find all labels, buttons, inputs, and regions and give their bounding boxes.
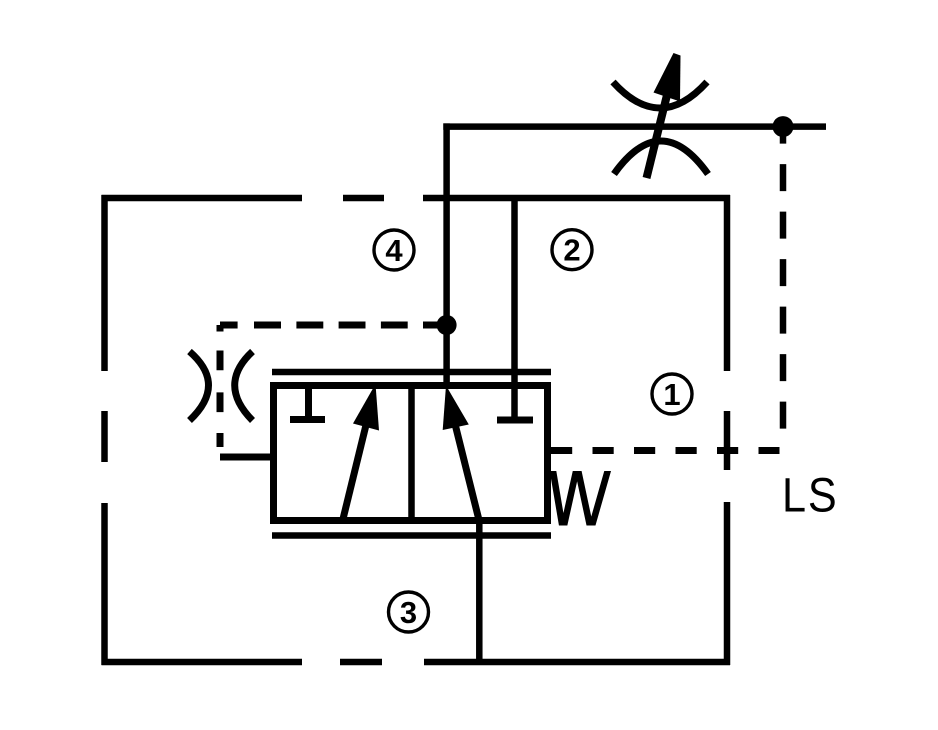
wire: port 2 line from boundary to blocked port [511, 198, 518, 417]
right position flow arrow shaft [454, 420, 480, 524]
enclosure boundary left side [101, 195, 108, 665]
port 3 label [389, 592, 429, 632]
variable orifice adjustment arrow head [654, 53, 681, 102]
port 2 label [552, 230, 592, 270]
wire: port 3 line from valve to bottom boundary [476, 519, 483, 662]
wire: supply drop from inlet to valve port 4 [443, 123, 450, 389]
svg-text:1: 1 [663, 377, 680, 412]
valve intermediate-position bar bottom [272, 532, 551, 539]
enclosure boundary top side [102, 195, 731, 202]
junction node at pilot tee [437, 315, 457, 335]
right position blocked port T bar [497, 417, 533, 424]
wire: dashed pilot line from valve pilot through orifice to junction [220, 325, 441, 447]
valve body box [274, 386, 548, 521]
variable orifice lower arc [614, 141, 708, 174]
valve position divider [408, 386, 415, 521]
valve intermediate-position bar top [272, 369, 551, 376]
left position blocked port T [290, 388, 325, 420]
svg-text:LS: LS [782, 468, 838, 522]
left position flow arrow head [353, 384, 379, 431]
wire: solid pilot stub into valve left side [220, 454, 272, 461]
wire: dashed LS horizontal pilot line [551, 447, 780, 454]
fixed pilot orifice right arc [235, 352, 253, 421]
enclosure boundary bottom side [102, 659, 731, 666]
wire: dashed LS vertical drop [780, 127, 787, 444]
fixed pilot orifice left arc [190, 352, 209, 421]
enclosure boundary right side [724, 195, 731, 665]
junction node at LS tap [773, 116, 794, 137]
svg-text:4: 4 [385, 233, 403, 268]
right position flow arrow head [443, 386, 469, 431]
variable orifice adjustment arrow shaft [647, 95, 668, 178]
wire: inlet line at top [443, 123, 826, 130]
port 4 label [374, 230, 414, 270]
svg-text:2: 2 [563, 233, 580, 268]
port 1 label [652, 374, 692, 414]
left position flow arrow shaft [343, 421, 368, 521]
variable orifice upper arc [613, 82, 707, 108]
svg-text:3: 3 [400, 595, 417, 630]
